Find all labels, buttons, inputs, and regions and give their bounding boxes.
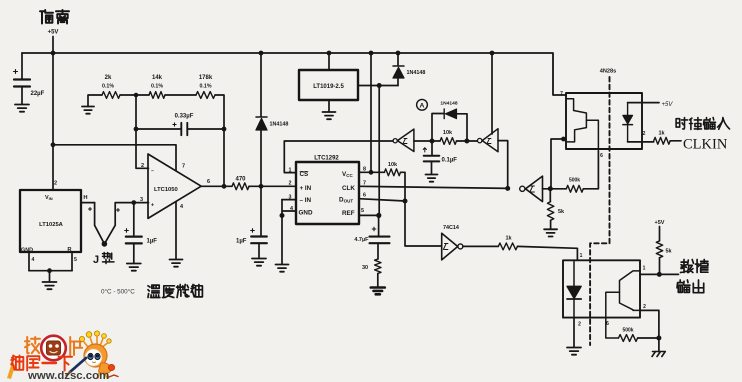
wire V+ feed to op-amp pin7 bbox=[53, 145, 176, 171]
svg-text:0.1%: 0.1% bbox=[151, 84, 163, 90]
wire D2 to LT1019 output bbox=[397, 78, 399, 86]
optocoupler U8 4N28 box bbox=[563, 260, 640, 317]
logo hanzi pian outlined bbox=[70, 337, 82, 355]
hanzi zhong of clock-input bbox=[690, 118, 702, 130]
wire osc 10k right lead bbox=[457, 140, 478, 142]
svg-text:2: 2 bbox=[289, 181, 292, 187]
node LT1019 output junction bbox=[377, 83, 382, 88]
wire 5k clock to ground bbox=[550, 220, 552, 229]
wire 500k data right lead bbox=[638, 337, 659, 339]
node LT1025 ground junction bbox=[47, 268, 52, 273]
svg-text:1N4148: 1N4148 bbox=[440, 101, 457, 107]
wire rail to LT1019 bbox=[328, 53, 330, 70]
svg-text:+: + bbox=[151, 203, 154, 209]
wire diode branch left bbox=[432, 114, 444, 142]
node rail D2 junction bbox=[396, 51, 401, 56]
node emitter 500k junction bbox=[656, 336, 661, 341]
wire +5V down to LT1025 bbox=[52, 53, 54, 190]
node feedback/output junction bbox=[222, 184, 227, 189]
svg-text:1k: 1k bbox=[658, 131, 665, 137]
wire ADC VCC lead bbox=[359, 171, 384, 173]
svg-text:–: – bbox=[151, 169, 154, 175]
svg-text:DOUT: DOUT bbox=[339, 197, 353, 204]
wire thermocouple J right leg bbox=[104, 203, 148, 244]
wire LED1 cathode lead bbox=[628, 141, 654, 143]
logo mascot brush bbox=[70, 358, 86, 372]
label A marker circle bbox=[417, 99, 428, 110]
svg-text:10k: 10k bbox=[388, 162, 398, 168]
svg-text:6: 6 bbox=[606, 321, 609, 327]
logo hanzi zhao outlined bbox=[25, 337, 40, 353]
svg-text:– IN: – IN bbox=[300, 197, 312, 204]
node 2k/14k junction bbox=[134, 93, 139, 98]
ground 22uF bbox=[15, 105, 29, 112]
wire 0.1uF stem bbox=[431, 141, 433, 155]
svg-text:5k: 5k bbox=[558, 209, 565, 215]
wire ADC GND lead bbox=[282, 210, 296, 212]
label thermocouple + left bbox=[89, 208, 92, 211]
resistor 1k clkin bbox=[654, 137, 671, 144]
resistor 30 ohm bbox=[375, 259, 381, 274]
svg-text:CLK: CLK bbox=[342, 185, 355, 192]
wire rail to U5b bbox=[491, 53, 493, 134]
svg-text:2: 2 bbox=[578, 322, 581, 328]
wire LED1 anode to +5V bbox=[628, 102, 659, 104]
capacitor 1uF thermo bbox=[126, 237, 142, 244]
ground 1uF filter bbox=[252, 259, 266, 266]
wire LT1025 H output bbox=[81, 202, 95, 204]
svg-text:178k: 178k bbox=[199, 75, 213, 81]
hanzi ju of data-output bbox=[696, 260, 708, 273]
wire +5V stub bbox=[52, 37, 54, 54]
svg-text:14k: 14k bbox=[152, 75, 163, 81]
svg-text:1N4148: 1N4148 bbox=[407, 70, 426, 76]
hanzi wen of range note bbox=[148, 285, 160, 297]
ground op-amp V- bbox=[170, 260, 183, 267]
logo hanzi wei red bbox=[11, 356, 23, 370]
resistor 500k data bbox=[619, 335, 638, 342]
hanzi ge of isolation header bbox=[40, 10, 53, 24]
wire node down to op-amp pin2 bbox=[136, 95, 149, 168]
logo mascot crown bbox=[79, 331, 111, 348]
svg-text:CS: CS bbox=[300, 171, 309, 178]
svg-text:6: 6 bbox=[207, 179, 210, 185]
wire 14k to 178k bbox=[165, 94, 196, 96]
wire U5b input from clock line bbox=[498, 141, 508, 189]
wire 178k to feedback corner bbox=[215, 95, 224, 186]
svg-text:7: 7 bbox=[182, 164, 185, 170]
wire rail to D2 bbox=[397, 53, 399, 66]
capacitor 4.7uF bbox=[370, 237, 390, 244]
wire 1uF thermo stem bbox=[133, 203, 135, 235]
node osc node A bbox=[430, 139, 435, 144]
diode LED1 opto1 bbox=[627, 103, 629, 142]
svg-text:VCC: VCC bbox=[342, 171, 353, 178]
resistor 14k bbox=[149, 92, 165, 99]
logo hanzi xia red bbox=[59, 357, 73, 371]
wire LT1025 ground stem bbox=[49, 271, 51, 282]
label 1uF thermo polarity + bbox=[125, 229, 129, 233]
wire 2k left lead to ground bbox=[88, 95, 102, 106]
resistor 1k data bbox=[498, 243, 517, 250]
capacitor 0.1uF bbox=[424, 156, 440, 162]
IC U2 LT1025 box bbox=[20, 190, 81, 252]
wire opto1 base lead down bbox=[551, 139, 564, 189]
resistor 470 bbox=[232, 183, 249, 190]
inverter U7 bubble bbox=[458, 244, 463, 249]
wire REF cap stem bbox=[378, 215, 380, 235]
logo yellow slash bbox=[7, 364, 16, 379]
svg-text:0.1%: 0.1% bbox=[199, 84, 211, 90]
node LT1019 rail junction bbox=[327, 51, 332, 56]
svg-text:+5V: +5V bbox=[655, 220, 665, 226]
wire 5k data to output node bbox=[659, 258, 661, 275]
resistor 5k clock bbox=[547, 202, 553, 221]
node junction at V+ feed bbox=[51, 142, 56, 147]
svg-text:+5V: +5V bbox=[48, 30, 59, 36]
wire LT1025 GND pin4 bbox=[28, 252, 30, 271]
node +5V rail junction bbox=[51, 51, 56, 56]
resistor 5k data pull-up bbox=[656, 241, 662, 258]
hanzi wei of range note bbox=[191, 285, 202, 297]
label 1uF filter polarity + bbox=[251, 229, 255, 233]
transistor Q2 opto2 phototransistor bbox=[620, 271, 641, 311]
diode D1 1N4148 bbox=[256, 116, 267, 118]
logo red circle chip bbox=[41, 336, 66, 361]
wire 30ohm to ground bbox=[377, 274, 379, 288]
wire +5V data pull-up stem bbox=[659, 227, 661, 241]
wire 5k clock stem bbox=[549, 189, 551, 202]
inverter U5b triangle bbox=[482, 129, 498, 152]
svg-text:22µF: 22µF bbox=[31, 91, 45, 97]
svg-text:1: 1 bbox=[580, 253, 583, 259]
svg-text:+ IN: + IN bbox=[300, 185, 312, 192]
resistor 178k bbox=[196, 92, 215, 99]
node rail diode junction bbox=[259, 51, 264, 56]
wire diode branch right bbox=[457, 114, 468, 141]
node REF junction bbox=[376, 213, 381, 218]
svg-text:H: H bbox=[83, 195, 87, 201]
hanzi fan of range note bbox=[177, 285, 190, 298]
hanzi li of isolation header bbox=[56, 10, 69, 24]
wire rail to diode D1 bbox=[260, 53, 262, 117]
hanzi xing of J-type bbox=[103, 253, 115, 264]
node data output junction bbox=[657, 272, 662, 277]
wire LT1025 R pin5 bbox=[71, 252, 73, 271]
svg-text:74C14: 74C14 bbox=[443, 225, 459, 231]
ground ADC bbox=[276, 265, 289, 272]
svg-text:4: 4 bbox=[32, 257, 35, 263]
diode D3 1N4148 osc bbox=[443, 109, 445, 119]
svg-text:GND: GND bbox=[21, 248, 33, 254]
svg-text:10k: 10k bbox=[443, 130, 453, 136]
svg-text:6: 6 bbox=[600, 153, 603, 159]
wire junction to 500k bbox=[550, 188, 566, 190]
svg-text:4N28s: 4N28s bbox=[600, 69, 616, 75]
hanzi shu of clock-input bbox=[704, 118, 716, 129]
svg-text:CLKIN: CLKIN bbox=[683, 137, 728, 153]
wire 2k to 14k bbox=[120, 94, 149, 96]
transistor Q1 opto1 phototransistor bbox=[566, 99, 586, 142]
wire 22uF bottom lead bbox=[21, 88, 23, 105]
inverter U5c triangle bbox=[526, 176, 543, 202]
svg-text:2: 2 bbox=[643, 304, 646, 310]
wire LT1019 output bbox=[358, 85, 398, 87]
wire emitter to earth ground bbox=[658, 338, 660, 352]
node feedback cap left junction bbox=[134, 127, 139, 132]
wire osc 10k left lead bbox=[432, 140, 440, 142]
wire 500k to opto1 emitter bbox=[583, 152, 598, 189]
svg-text:7: 7 bbox=[560, 91, 563, 97]
label 0.33uF polarity bbox=[173, 123, 176, 126]
inverter U5b bubble bbox=[478, 138, 482, 142]
wire 1k data to opto2 bbox=[517, 246, 577, 260]
svg-text:1µF: 1µF bbox=[147, 239, 158, 245]
svg-text:GND: GND bbox=[299, 210, 313, 217]
inverter U5a bubble bbox=[393, 139, 397, 143]
inverter U5a hysteresis bbox=[403, 139, 407, 144]
node op-amp +IN junction bbox=[131, 200, 136, 205]
svg-text:www.dzsc.com: www.dzsc.com bbox=[27, 370, 109, 382]
label 4.7uF polarity + bbox=[372, 227, 376, 231]
ground LT1019 bbox=[323, 112, 336, 119]
wire rail down to ADC VCC bbox=[370, 53, 372, 172]
ground 30 ohm bbox=[371, 288, 385, 295]
wire opto2 collector output bbox=[640, 273, 679, 275]
svg-text:0°C - 500°C: 0°C - 500°C bbox=[101, 288, 135, 296]
wire 1uF thermo to ground bbox=[133, 244, 135, 263]
svg-text:2: 2 bbox=[141, 163, 144, 169]
node opto1 base lead dot bbox=[561, 137, 566, 142]
capacitor 22uF bbox=[14, 80, 30, 87]
wire LT1019 output down to REF bbox=[378, 86, 380, 216]
hanzi du of range note bbox=[163, 286, 175, 298]
hanzi chu of data-output bbox=[693, 280, 703, 293]
node feedback cap right junction bbox=[222, 127, 227, 132]
hanzi shi of clock-input bbox=[676, 118, 687, 130]
diode LED2 opto2 bbox=[573, 260, 575, 317]
hanzi shu of data-output bbox=[681, 260, 694, 273]
wire LT1025 bottom bus bbox=[29, 270, 72, 272]
wire 10k to DOUT vertical bbox=[401, 172, 442, 246]
svg-text:5: 5 bbox=[361, 208, 364, 214]
node osc node B bbox=[464, 139, 469, 144]
svg-text:500k: 500k bbox=[569, 178, 580, 184]
svg-text:REF: REF bbox=[342, 210, 355, 217]
inverter U7 74C14 triangle bbox=[442, 233, 458, 260]
inverter U5b hysteresis bbox=[487, 139, 491, 144]
IC U3 LT1019-2.5 box bbox=[299, 70, 358, 100]
wire op-amp pin4 to ground bbox=[175, 202, 177, 259]
isolation barrier dashed line bbox=[590, 77, 609, 345]
svg-text:6: 6 bbox=[363, 193, 366, 199]
optocoupler U6 4N28 box bbox=[566, 93, 642, 149]
svg-text:1k: 1k bbox=[505, 236, 512, 242]
ground LT1025 bbox=[43, 282, 57, 289]
wire ADC DOUT lead bbox=[359, 199, 405, 201]
logo hanzi yi red bbox=[43, 362, 57, 364]
inverter U5a triangle bbox=[397, 129, 414, 151]
ground 2k bbox=[82, 107, 94, 114]
svg-text:2: 2 bbox=[643, 131, 646, 137]
resistor 2k bbox=[102, 92, 120, 99]
svg-text:30: 30 bbox=[362, 265, 368, 271]
logo mascot head bbox=[84, 344, 107, 367]
svg-text:2k: 2k bbox=[105, 75, 112, 81]
wire 1k to CLKIN bbox=[670, 140, 681, 142]
ground 5k clock bbox=[544, 229, 557, 236]
svg-text:500k: 500k bbox=[622, 328, 633, 334]
node clock line junction bbox=[505, 186, 510, 191]
svg-text:LTC1292: LTC1292 bbox=[314, 156, 339, 162]
wire 0.33uF right lead bbox=[188, 128, 224, 130]
svg-text:+5V: +5V bbox=[662, 102, 674, 108]
ground opto2 LED bbox=[567, 348, 581, 355]
wire ADC CS long line to inverter bbox=[284, 141, 393, 173]
svg-text:4.7µF: 4.7µF bbox=[354, 237, 369, 243]
logo hanzi ku red bbox=[27, 356, 39, 370]
svg-text:1µF: 1µF bbox=[236, 239, 247, 245]
svg-text:A: A bbox=[420, 102, 425, 109]
resistor 10k pull-up bbox=[384, 169, 400, 176]
wire thermocouple J left leg bbox=[95, 203, 105, 244]
wire diode D1 to +IN node bbox=[260, 130, 262, 186]
hanzi ru of clock-input bbox=[718, 118, 730, 130]
wire ADC CLK line bbox=[359, 186, 508, 188]
node VCC pullup junction bbox=[369, 170, 374, 175]
wire ADC analog ground vertical bbox=[281, 200, 283, 264]
wire U7 output bbox=[463, 245, 498, 247]
wire op-amp output bbox=[201, 185, 232, 187]
logo mascot body bbox=[99, 363, 112, 374]
ground 1uF thermo bbox=[127, 264, 141, 271]
svg-text:1: 1 bbox=[643, 266, 646, 272]
label 0.1uF polarity bbox=[423, 148, 426, 152]
label 22uF polarity + bbox=[14, 70, 18, 74]
wire 0.33uF left lead bbox=[136, 128, 181, 130]
svg-text:0.1µF: 0.1µF bbox=[442, 158, 458, 164]
IC U4 LTC1292 box bbox=[296, 162, 359, 224]
hanzi shu2 of data-output bbox=[677, 280, 690, 292]
ground earth data output bbox=[652, 352, 665, 357]
inverter U5c bubble bbox=[520, 186, 525, 191]
resistor 500k clock bbox=[566, 185, 583, 192]
wire opto2 emitter down bbox=[640, 310, 659, 338]
wire +5V top rail bbox=[22, 53, 566, 95]
svg-text:LT1025A: LT1025A bbox=[39, 222, 64, 228]
op-amp U1 LTC1050 triangle bbox=[148, 154, 201, 218]
wire 470 to ADC +IN bbox=[249, 185, 296, 187]
ground 0.1uF bbox=[426, 175, 438, 182]
node thermocouple junction bead bbox=[102, 241, 108, 247]
svg-text:5k: 5k bbox=[666, 249, 673, 255]
wire 1uF filter to ground bbox=[258, 244, 260, 258]
wire 4.7uF to 30ohm bbox=[377, 244, 379, 259]
wire 0.1uF to ground bbox=[431, 162, 433, 174]
logo mascot eyes bbox=[88, 353, 93, 359]
wire 1uF filter stem bbox=[260, 186, 262, 235]
svg-text:LTC1050: LTC1050 bbox=[154, 187, 178, 193]
wire U5a input bbox=[414, 140, 432, 142]
wire ADC -IN lead bbox=[282, 199, 296, 201]
svg-text:VIN: VIN bbox=[45, 195, 53, 201]
svg-text:LT1019-2.5: LT1019-2.5 bbox=[313, 84, 344, 90]
svg-text:5: 5 bbox=[74, 257, 77, 263]
inverter U7 hysteresis bbox=[443, 244, 448, 250]
inverter U5c hysteresis bbox=[530, 186, 535, 192]
svg-text:1N4148: 1N4148 bbox=[270, 122, 289, 128]
label thermocouple + right bbox=[117, 209, 120, 212]
resistor 10k osc bbox=[440, 138, 457, 145]
diode D2 1N4148 bbox=[393, 65, 404, 67]
wire LED2 cathode to ground bbox=[573, 318, 575, 347]
capacitor 1uF filter bbox=[251, 237, 267, 244]
node DOUT junction bbox=[403, 199, 408, 204]
wire 22uF top lead bbox=[21, 53, 23, 79]
node U5c input junction bbox=[548, 186, 553, 191]
wire U5c input bbox=[543, 188, 551, 190]
svg-text:0.1%: 0.1% bbox=[102, 84, 114, 90]
node rail U5b junction bbox=[490, 51, 495, 56]
wire LT1019 ground stem bbox=[328, 100, 330, 112]
node ADC ground junction bbox=[280, 213, 285, 218]
capacitor 0.33uF bbox=[181, 123, 187, 135]
svg-text:J: J bbox=[93, 254, 99, 266]
svg-text:2: 2 bbox=[54, 181, 57, 187]
svg-text:0.33µF: 0.33µF bbox=[175, 114, 194, 120]
wire ADC REF lead bbox=[359, 214, 379, 216]
node rail VCC junction bbox=[369, 51, 374, 56]
node +IN filter junction bbox=[259, 184, 264, 189]
svg-text:470: 470 bbox=[235, 177, 246, 183]
